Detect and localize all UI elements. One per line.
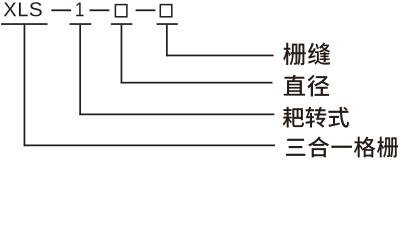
digit 1: [76, 2, 83, 16]
model code XLS: [4, 2, 42, 16]
underline under box 1: [111, 23, 132, 25]
underline under XLS: [1, 23, 48, 25]
wire from XLS down: [24, 25, 26, 146]
label zhijing: [284, 75, 329, 97]
wire to label shanfeng: [166, 55, 274, 57]
underline under 1: [70, 23, 92, 25]
dash 1: [51, 9, 71, 11]
wire to label zhijing: [121, 82, 273, 84]
wire from 1 down: [79, 25, 81, 115]
wire from box 2 down: [166, 25, 168, 56]
placeholder box 1: [115, 5, 127, 17]
dash 3: [136, 9, 156, 11]
wire from box 1 down: [121, 25, 123, 84]
label shanfeng: [283, 43, 330, 65]
label pazhuanshi: [283, 107, 349, 128]
label sanheyigeshan: [286, 137, 398, 158]
underline under box 2: [157, 23, 178, 25]
wire to label sanheyigeshan: [24, 145, 275, 147]
dash 2: [90, 9, 110, 11]
placeholder box 2: [160, 5, 172, 17]
wire to label pazhuanshi: [79, 114, 274, 116]
